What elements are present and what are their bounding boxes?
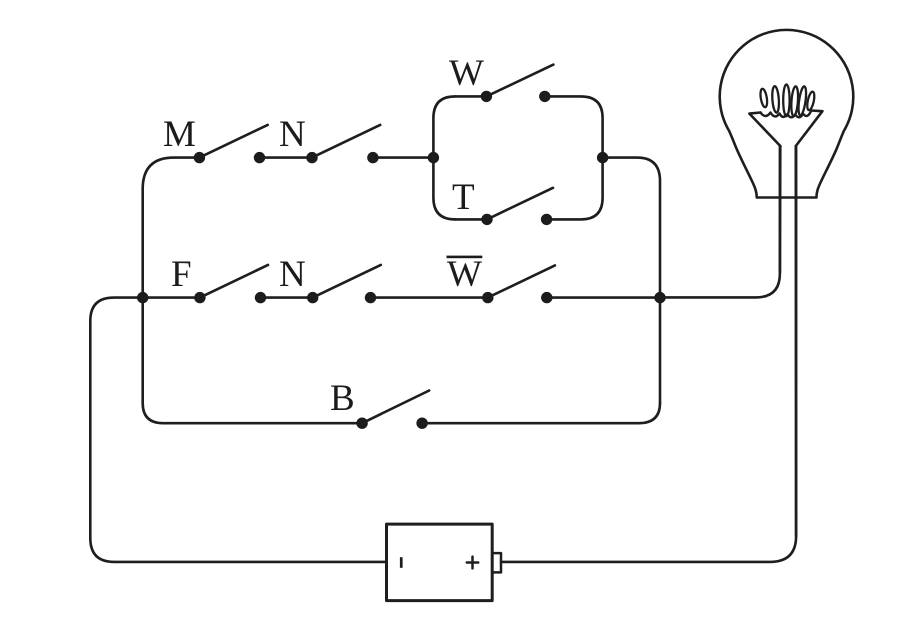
wire: segment between F and N (middle row) [261, 296, 313, 299]
wire: F-junction left arm curving down to far-left vertical [90, 298, 142, 538]
bulb filament left support [749, 113, 780, 147]
bulb filament coil bottom scallops [761, 111, 812, 118]
node: junction on right vertical at middle row [654, 292, 665, 303]
wire: T rail right segment with corner up to right vertical [547, 158, 603, 220]
wire: top-left corner curve into M row [143, 158, 200, 189]
wire: B row right segment, corner up to right vertical [422, 403, 660, 423]
wire: parallel branch left vertical with corners to W and T rails [433, 96, 455, 219]
switch W blade [486, 65, 553, 97]
switch N (middle row) contacts [307, 292, 376, 303]
battery box [387, 524, 493, 601]
svg-text:B: B [330, 378, 355, 419]
wire: B row left corner from left vertical [143, 403, 362, 423]
switch N (top row) contacts [306, 152, 378, 163]
wire: battery positive to bulb right lead corner [501, 146, 796, 562]
wire: junction to F left contact [143, 296, 200, 299]
overline of Wbar [447, 256, 483, 259]
wire: Wbar to right junction [547, 296, 660, 299]
wire: far-left vertical corner into battery row [90, 538, 386, 562]
svg-text:W: W [447, 254, 482, 295]
wire: W rail right segment with corner down to right vertical [545, 96, 603, 157]
wire: T rail left segment [455, 218, 487, 221]
battery positive mark [467, 557, 478, 569]
bulb filament coil loops [759, 84, 815, 116]
svg-text:N: N [279, 114, 306, 155]
node: 4-way junction left of F [137, 292, 148, 303]
switch N (top row) blade [312, 125, 380, 158]
switch F contacts [194, 292, 266, 303]
wire: left vertical from M-row corner down to F junction and on to B row [141, 189, 144, 403]
switch W contacts [481, 91, 551, 102]
svg-text:T: T [452, 177, 475, 218]
switch N (middle row) blade [313, 265, 381, 298]
wire: segment between N and Wbar [371, 296, 488, 299]
wire: from parallel junction right then curve down the right vertical [603, 158, 660, 403]
svg-text:W: W [449, 53, 484, 94]
switch B blade [362, 391, 429, 424]
bulb filament right support [796, 111, 823, 147]
wire: M-row segment between M and N [260, 156, 313, 159]
switch M contacts [194, 152, 266, 163]
svg-text:N: N [279, 254, 306, 295]
bulb envelope: circle arc with neck and base [720, 30, 854, 198]
switch B contacts [356, 418, 427, 429]
switch M blade [199, 125, 267, 158]
wire: M-row segment from N to parallel junction [373, 156, 434, 159]
wire: middle row continues right, corner up to bulb left lead [660, 146, 780, 297]
battery positive terminal nub [492, 553, 501, 572]
bulb right lead inside envelope [794, 146, 797, 536]
node: junction of M row with W/T parallel branch [428, 152, 439, 163]
switch T contacts [481, 214, 552, 225]
svg-text:M: M [163, 114, 196, 155]
battery negative mark [400, 557, 403, 568]
bulb left lead inside envelope [779, 146, 782, 272]
wire: W rail left segment [455, 95, 486, 98]
switch Wbar contacts [482, 292, 552, 303]
switch F blade [200, 265, 268, 298]
node: junction at right of W/T parallel branch [597, 152, 608, 163]
svg-text:F: F [171, 254, 192, 295]
switch T blade [487, 188, 553, 220]
switch Wbar blade [488, 265, 555, 297]
